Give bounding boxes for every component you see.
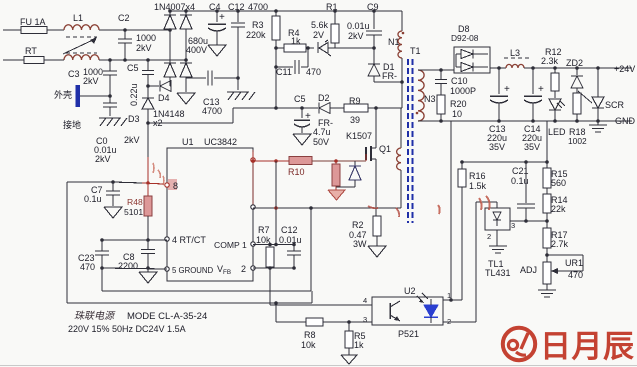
svg-text:R8: R8 xyxy=(304,330,316,340)
svg-text:GND: GND xyxy=(615,116,636,126)
svg-text:FB: FB xyxy=(223,269,231,276)
svg-text:50V: 50V xyxy=(313,137,329,147)
svg-text:3: 3 xyxy=(363,315,367,324)
wire pin1 comp row xyxy=(253,244,294,246)
wire RT/CT row xyxy=(102,239,167,241)
opto transistor xyxy=(389,303,391,319)
wire pin8 row xyxy=(67,181,113,183)
wire opto pin3 row xyxy=(275,303,277,322)
svg-text:C5: C5 xyxy=(294,94,306,104)
svg-text:10k: 10k xyxy=(256,235,271,245)
svg-text:4700: 4700 xyxy=(202,106,222,116)
svg-text:+: + xyxy=(538,84,544,95)
svg-text:2.3k: 2.3k xyxy=(541,56,559,66)
svg-text:470: 470 xyxy=(568,270,583,280)
svg-text:TL431: TL431 xyxy=(485,268,511,278)
ground under R11 red xyxy=(328,190,345,200)
svg-text:2kV: 2kV xyxy=(83,76,99,86)
svg-text:K1507: K1507 xyxy=(346,131,372,141)
svg-text:3: 3 xyxy=(511,221,515,230)
svg-text:2V: 2V xyxy=(313,30,324,40)
svg-text:R20: R20 xyxy=(450,99,467,109)
svg-text:0.01u: 0.01u xyxy=(279,235,302,245)
wire R7 to opto pin4 xyxy=(269,268,271,305)
logo 日月辰 xyxy=(503,328,535,360)
resistor R11 gate xyxy=(335,161,337,164)
svg-text:4700: 4700 xyxy=(248,2,268,12)
svg-text:220V 15% 50Hz DC24V 1.5A: 220V 15% 50Hz DC24V 1.5A xyxy=(68,324,186,334)
svg-text:UC3842: UC3842 xyxy=(204,137,237,147)
wire D8 output to +24V rail xyxy=(490,67,506,69)
svg-text:0.1u: 0.1u xyxy=(84,194,102,204)
svg-text:400V: 400V xyxy=(186,45,207,55)
svg-text:R2: R2 xyxy=(352,220,364,230)
ground under R2 xyxy=(368,246,386,257)
wire aux supply row xyxy=(148,122,233,124)
svg-text:外壳: 外壳 xyxy=(54,89,72,100)
svg-text:RT: RT xyxy=(25,46,37,56)
opto LED blue xyxy=(424,305,438,317)
ground earth (接地) xyxy=(99,117,121,119)
svg-text:39: 39 xyxy=(350,115,360,125)
svg-text:C12: C12 xyxy=(281,225,298,235)
wire chassis to C0 xyxy=(80,95,110,97)
diode D4 1N4148 xyxy=(148,85,159,87)
wire TL431 ref row xyxy=(510,220,547,222)
svg-text:0.22u: 0.22u xyxy=(129,83,139,106)
svg-text:D3: D3 xyxy=(128,114,140,124)
svg-text:D92-08: D92-08 xyxy=(451,33,479,43)
diode D1 FR- xyxy=(373,48,375,64)
wire feedback row xyxy=(462,161,547,163)
wire R3 column lower xyxy=(275,161,277,245)
wire bridge right column xyxy=(185,11,187,15)
transformer T1 primary N1 xyxy=(374,10,402,12)
svg-text:5 GROUND: 5 GROUND xyxy=(172,266,214,275)
svg-text:+: + xyxy=(219,12,225,23)
svg-text:N3: N3 xyxy=(424,94,436,104)
red watermark residue near TL431 xyxy=(438,196,490,214)
svg-text:8: 8 xyxy=(173,181,178,191)
svg-text:2200: 2200 xyxy=(118,261,138,271)
svg-text:D2: D2 xyxy=(318,93,330,103)
svg-text:R7: R7 xyxy=(258,225,270,235)
svg-text:35V: 35V xyxy=(524,142,540,152)
svg-text:3W: 3W xyxy=(353,239,367,249)
capacitor C13 4700 xyxy=(186,77,206,79)
wire inner loop xyxy=(101,268,103,291)
ground under UR1 xyxy=(546,284,548,290)
svg-text:UR1: UR1 xyxy=(565,258,583,268)
wire bridge left column xyxy=(169,11,171,15)
wire +24V rail xyxy=(524,67,632,69)
wire secondary top xyxy=(418,69,454,71)
wire outer loop left xyxy=(66,182,68,303)
capacitor C0 0.01u 2kV xyxy=(109,96,111,103)
svg-text:D4: D4 xyxy=(158,93,170,103)
svg-text:C4: C4 xyxy=(209,2,221,12)
wire DC+ top rail xyxy=(170,10,402,12)
wire GND rail to R15 xyxy=(546,121,548,168)
svg-text:COMP 1: COMP 1 xyxy=(214,240,247,250)
wire TL431 cathode to opto pin2 xyxy=(496,202,498,208)
svg-text:2.7k: 2.7k xyxy=(551,239,569,249)
svg-text:C5: C5 xyxy=(127,63,139,73)
bottom edge line xyxy=(0,365,637,367)
wire pin6 output row xyxy=(253,207,401,209)
wire ground row xyxy=(102,268,167,269)
wire AC line L top xyxy=(3,29,21,31)
wire snubber row xyxy=(233,107,318,109)
red residue left of U1 xyxy=(153,163,164,185)
svg-text:Q1: Q1 xyxy=(379,144,391,154)
ground earth right xyxy=(597,121,599,125)
svg-text:5.6k: 5.6k xyxy=(311,20,329,30)
wire secondary bottom GND rail xyxy=(418,120,632,122)
svg-text:2kV: 2kV xyxy=(348,31,364,41)
LED indicator xyxy=(549,109,561,111)
svg-text:220k: 220k xyxy=(246,30,266,40)
svg-text:35V: 35V xyxy=(489,142,505,152)
svg-text:2kV: 2kV xyxy=(124,135,140,145)
svg-text:T1: T1 xyxy=(410,46,421,56)
pin 7 VCC xyxy=(251,158,255,162)
svg-text:470: 470 xyxy=(306,67,321,77)
svg-text:C12: C12 xyxy=(228,2,245,12)
wire ZD2 to SCR gate xyxy=(578,91,592,103)
thyristor SCR xyxy=(597,68,599,97)
pin 6 OUT xyxy=(251,205,255,209)
svg-text:R48: R48 xyxy=(127,197,143,207)
capacitor C13 220u 35V xyxy=(498,68,500,94)
ground under bridge xyxy=(177,93,195,104)
red residue near Q1 xyxy=(368,206,399,217)
ground under TL431 xyxy=(496,230,498,246)
svg-text:470: 470 xyxy=(80,262,95,272)
svg-text:+24V: +24V xyxy=(614,64,635,74)
wire Q1 gate xyxy=(365,154,367,161)
svg-text:SCR: SCR xyxy=(605,100,625,110)
ground under C8 xyxy=(147,268,149,272)
diode bridge D upper-right xyxy=(180,14,192,16)
ground under C7 xyxy=(104,207,122,218)
svg-text:1000P: 1000P xyxy=(450,86,476,96)
diode bridge D upper-left xyxy=(164,14,176,16)
svg-text:MODE CL-A-35-24: MODE CL-A-35-24 xyxy=(127,311,207,322)
svg-text:1.5k: 1.5k xyxy=(469,181,487,191)
svg-text:FR-: FR- xyxy=(318,118,333,128)
wire VCC feed red xyxy=(147,123,149,157)
svg-text:接地: 接地 xyxy=(63,119,81,130)
svg-text:4: 4 xyxy=(363,296,367,305)
wire pin2 vfb row xyxy=(253,267,294,269)
svg-text:1k: 1k xyxy=(354,340,364,350)
svg-text:FU 1A: FU 1A xyxy=(20,17,46,27)
svg-text:+: + xyxy=(504,84,510,95)
svg-text:10: 10 xyxy=(452,109,462,119)
ground under R5 xyxy=(341,355,357,364)
pin 8 VREF xyxy=(168,179,177,190)
wire opto pin1 xyxy=(443,299,462,301)
wire D1 to primary bottom xyxy=(374,81,402,83)
svg-text:2kV: 2kV xyxy=(136,43,152,53)
ground chassis under C13 xyxy=(237,78,239,90)
zener ZD gate xyxy=(354,161,356,166)
svg-text:C10: C10 xyxy=(451,76,468,86)
op-amp TL1 TL431 xyxy=(485,208,510,230)
svg-text:ADJ: ADJ xyxy=(520,265,537,275)
svg-text:ZD2: ZD2 xyxy=(566,58,583,68)
svg-text:4 RT/CT: 4 RT/CT xyxy=(172,235,206,245)
svg-text:2kV: 2kV xyxy=(95,154,111,164)
svg-text:10k: 10k xyxy=(301,340,316,350)
wire VCC pin7 row red xyxy=(252,152,254,161)
svg-text:2: 2 xyxy=(241,264,246,274)
svg-text:C11: C11 xyxy=(276,67,292,77)
svg-text:2: 2 xyxy=(487,232,491,241)
svg-text:5101: 5101 xyxy=(124,207,143,217)
ground under C5 xyxy=(293,134,311,145)
svg-text:P521: P521 xyxy=(398,329,419,339)
svg-text:1002: 1002 xyxy=(568,136,587,146)
svg-text:1000: 1000 xyxy=(136,33,156,43)
wire AC line N bottom xyxy=(3,59,24,61)
diode D3 1N4148 xyxy=(147,86,149,98)
svg-text:0.01u: 0.01u xyxy=(347,21,370,31)
transformer T1 core xyxy=(407,59,409,223)
svg-text:R10: R10 xyxy=(288,167,305,177)
svg-text:560: 560 xyxy=(551,178,566,188)
svg-text:C2: C2 xyxy=(118,13,130,23)
svg-text:L3: L3 xyxy=(510,48,520,58)
svg-text:4.7u: 4.7u xyxy=(313,127,331,137)
svg-text:R3: R3 xyxy=(252,20,264,30)
svg-text:C3: C3 xyxy=(68,69,80,79)
transformer T1 aux winding xyxy=(400,108,402,148)
diode bridge D lower-right xyxy=(180,62,192,64)
svg-text:R16: R16 xyxy=(469,171,486,181)
svg-text:LED: LED xyxy=(548,127,566,137)
resistor R18 100 xyxy=(576,88,578,93)
wire GND drop xyxy=(450,121,452,300)
svg-text:U2: U2 xyxy=(404,286,416,296)
svg-text:珠联电源: 珠联电源 xyxy=(74,310,116,322)
svg-text:U1: U1 xyxy=(182,137,194,147)
svg-text:22k: 22k xyxy=(551,204,566,214)
svg-text:日月辰: 日月辰 xyxy=(540,329,634,364)
wire opto pin2 xyxy=(443,321,476,323)
svg-text:FR-: FR- xyxy=(382,71,397,81)
capacitor C14 220u 35V xyxy=(532,68,534,94)
svg-text:L1: L1 xyxy=(73,13,83,23)
wire bottom bus xyxy=(67,302,312,304)
diode bridge D lower-left xyxy=(164,62,176,64)
